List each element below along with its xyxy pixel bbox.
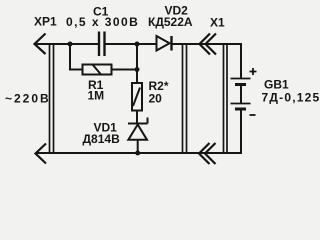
plug XP1 pin top (arrow) [35, 34, 46, 55]
svg-text:КД522А: КД522А [148, 15, 193, 29]
label ~220В [5, 92, 51, 106]
wire VD1 anode to bottom rail [137, 140, 139, 153]
battery plus sign [250, 68, 257, 75]
label C1 [93, 5, 109, 19]
label R2* [149, 79, 169, 93]
svg-text:X1: X1 [210, 16, 225, 30]
connector X1 socket top (double chevron) [200, 34, 217, 55]
battery GB1 cell 1 long plate [231, 78, 251, 80]
plug XP1 pin bottom (arrow) [36, 144, 47, 164]
svg-text:GB1: GB1 [264, 77, 289, 91]
node B junction dot (R1 right lead / riser) [135, 67, 140, 72]
svg-text:1M: 1M [88, 89, 105, 103]
label VD2 [165, 4, 189, 18]
wire bottom rail [36, 152, 242, 154]
label GB1 [264, 77, 289, 91]
label 7Д-0,125 [262, 91, 320, 105]
battery GB1 cell 1 short plate [235, 83, 246, 86]
label R1 [88, 78, 104, 92]
connector XP1 separation double line [50, 44, 54, 153]
wire R2 riser [136, 44, 138, 83]
zener diode VD1 [128, 118, 148, 140]
node D junction dot (VD1 / bottom rail) [135, 151, 140, 156]
node C junction dot (top rail / R2 riser) [135, 42, 140, 47]
resistor R2 [132, 83, 142, 111]
connector X1 left separation double line [183, 44, 187, 153]
label КД522А [148, 15, 193, 29]
diode VD2 [157, 36, 172, 51]
label X1 [210, 16, 225, 30]
resistor R1 [83, 65, 112, 75]
svg-text:Д814В: Д814В [83, 132, 121, 146]
wire top rail left segment [34, 43, 98, 45]
label 0,5 x 300В [66, 15, 139, 29]
capacitor C1 left plate [98, 32, 100, 57]
svg-text:0,5 х 300В: 0,5 х 300В [66, 15, 139, 29]
node A junction dot (top rail / R1 left lead) [68, 42, 73, 47]
battery GB1 cell 2 short plate [235, 108, 246, 111]
svg-text:XP1: XP1 [34, 14, 57, 28]
connector X1 right separation double line [224, 44, 228, 153]
battery GB1 cell 2 long plate [231, 103, 251, 105]
wire R1 left riser [70, 44, 83, 70]
svg-text:7Д-0,125: 7Д-0,125 [262, 91, 320, 105]
wire R1 right lead [112, 69, 138, 71]
wire battery bottom lead [240, 110, 242, 153]
label XP1 [34, 14, 57, 28]
wire battery top lead [240, 44, 242, 78]
label 1M [88, 89, 105, 103]
capacitor C1 right plate [103, 32, 105, 57]
label 20 [149, 92, 163, 106]
wire top rail right segment [172, 43, 242, 45]
wire between battery cells [240, 86, 242, 104]
label VD1 [94, 121, 118, 135]
connector X1 socket bottom (double chevron) [199, 143, 216, 164]
battery minus sign [250, 114, 256, 116]
wire top rail middle segment [105, 43, 156, 45]
label Д814В [83, 132, 121, 146]
svg-text:~220В: ~220В [5, 92, 51, 106]
wire R2 to VD1 [136, 111, 138, 125]
svg-text:20: 20 [149, 92, 163, 106]
